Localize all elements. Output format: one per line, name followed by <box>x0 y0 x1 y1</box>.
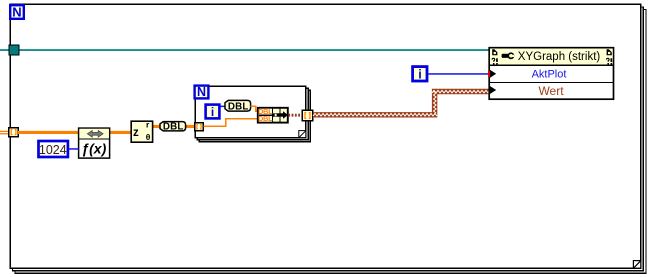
svg-text:θ: θ <box>146 132 151 142</box>
svg-text:N: N <box>12 4 21 19</box>
svg-text:N: N <box>197 85 206 99</box>
svg-text:i: i <box>418 68 421 82</box>
wire: blue I32 from i to AktPlot <box>428 73 489 75</box>
outer loop fold corner <box>633 261 640 269</box>
svg-text:z: z <box>133 127 139 139</box>
property node: XYGraph (strikt) <box>488 48 614 99</box>
svg-text:AktPlot: AktPlot <box>532 69 567 81</box>
wire: 1D cluster array (braided brown) tunnel to property node Wert <box>313 90 489 116</box>
wire: scalar orange from DBL tag to bundle (upper input) <box>251 106 259 111</box>
N terminal of outer loop <box>10 4 24 19</box>
coercion tag DBL (inner, i to DBL) <box>225 100 251 112</box>
tunnel: auto-index [] on outer loop left border (2D->1D) <box>9 128 18 137</box>
wire: 2D array (orange, double line) entering from left edge <box>0 131 10 135</box>
wire: scalar orange from inner tunnel to bundle (lower input) <box>204 119 259 126</box>
wire: 1D array orange, DBL coercion to inner loop tunnel <box>185 125 196 128</box>
input arrow AktPlot with required red mark <box>488 71 492 77</box>
tunnel: refnum (teal solid) on outer loop left border <box>9 45 19 55</box>
header page glyph left (black page, fold, ?! marks) <box>492 49 497 55</box>
svg-text:DBL: DBL <box>258 114 273 123</box>
svg-text:ƒ(x): ƒ(x) <box>81 140 106 156</box>
header page glyph right (black page, fold, ?! marks) <box>607 49 612 55</box>
input arrow Wert <box>490 86 496 94</box>
wire: blue from i to DBL coercion <box>220 106 225 108</box>
key icon (strict reference) <box>502 54 509 58</box>
i iteration terminal (inner loop) <box>206 105 220 119</box>
svg-text:XYGraph (strikt): XYGraph (strikt) <box>518 51 601 63</box>
node: Complex to Polar (z -> r, theta) <box>131 119 152 142</box>
inner loop fold corner <box>299 131 306 138</box>
constant 1024 (I32) <box>39 141 68 157</box>
bundle node <box>258 107 288 123</box>
tunnel: auto-index [] on inner loop left border (1D->scalar) <box>195 123 204 131</box>
svg-text:1024: 1024 <box>39 143 67 157</box>
i terminal (outer loop, to AktPlot) <box>413 67 427 82</box>
N terminal of inner loop <box>195 85 209 99</box>
coercion tag DBL (outer) <box>160 122 186 133</box>
wire: 1D array orange, subVI to z node <box>110 131 132 134</box>
svg-text:Wert: Wert <box>538 84 564 98</box>
wire: teal control refnum from left edge to property node <box>0 49 489 51</box>
svg-text:DBL: DBL <box>163 122 184 133</box>
tunnel: auto-index [] on inner loop right border (cluster->1D array) <box>302 110 313 121</box>
inner for-loop border (3 stacked frames) <box>195 86 310 141</box>
svg-text:i: i <box>211 105 214 119</box>
wire: scalar cluster (dotted brown) bundle to tunnel <box>288 114 302 117</box>
svg-text:DBL: DBL <box>228 101 249 112</box>
wire: 1D array orange, tunnel to subVI <box>18 131 79 134</box>
subVI node with FFT arrow and f(x) icon <box>79 128 110 158</box>
wire: 1D array orange, z node to DBL coercion <box>153 125 161 128</box>
wire: blue I32 from 1024 to f(x) <box>69 148 79 150</box>
